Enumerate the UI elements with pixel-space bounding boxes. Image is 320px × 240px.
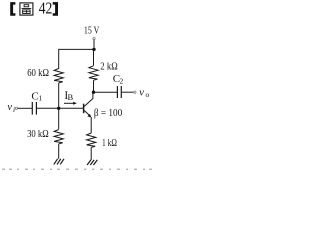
CJK glyph 圖 drawn as shapes xyxy=(20,3,33,15)
wire C2 to vo xyxy=(122,91,134,93)
wire vi to C1 xyxy=(18,107,32,109)
svg-text:60 kΩ: 60 kΩ xyxy=(27,68,49,79)
wire top rail xyxy=(59,48,94,50)
supply terminal circle xyxy=(93,37,95,39)
base bar xyxy=(83,104,85,114)
svg-text:42: 42 xyxy=(39,0,53,18)
ground right xyxy=(87,160,97,165)
svg-text:15 V: 15 V xyxy=(84,25,100,36)
wire 60k to base node xyxy=(58,83,60,108)
svg-text:B: B xyxy=(68,92,74,102)
resistor 1 kΩ xyxy=(87,133,96,147)
ground left xyxy=(54,159,64,165)
wire collector to C2 xyxy=(94,91,118,93)
svg-text:v: v xyxy=(7,102,12,113)
wire left branch upper xyxy=(58,49,60,69)
wire 30k branch upper xyxy=(58,108,60,129)
collector lead xyxy=(84,99,93,107)
output terminal circle xyxy=(134,91,136,93)
svg-text:β = 100: β = 100 xyxy=(94,108,122,119)
resistor 2 kΩ xyxy=(89,66,98,80)
svg-text:o: o xyxy=(146,90,150,99)
svg-text:1: 1 xyxy=(39,94,43,103)
wire C1 to base xyxy=(37,107,84,109)
resistor 60 kΩ xyxy=(54,69,63,83)
svg-text:2: 2 xyxy=(120,77,124,86)
svg-text:1 kΩ: 1 kΩ xyxy=(102,138,117,149)
right lenticular bracket xyxy=(53,2,58,16)
wire supply stub xyxy=(93,40,95,50)
wire right branch upper xyxy=(93,49,95,65)
capacitor C1 xyxy=(31,102,33,115)
left lenticular bracket xyxy=(10,2,15,16)
title figure label 【圖 42】 xyxy=(10,0,58,18)
wire 30k to ground xyxy=(58,144,60,159)
current arrow IB xyxy=(64,102,74,104)
svg-text:v: v xyxy=(139,87,144,98)
faint cropped text row at bottom xyxy=(2,168,152,170)
resistor 30 kΩ xyxy=(54,130,63,144)
svg-text:i: i xyxy=(13,105,15,114)
junction dot supply node xyxy=(92,48,95,51)
wire 2k to collector node xyxy=(93,80,95,92)
svg-text:30 kΩ: 30 kΩ xyxy=(27,129,49,140)
junction dot base node xyxy=(57,107,60,110)
wire 1k to ground xyxy=(90,147,92,160)
junction dot collector node xyxy=(92,91,95,94)
emitter lead with arrow xyxy=(84,110,90,116)
input terminal circle xyxy=(15,107,17,109)
capacitor C2 xyxy=(116,86,118,98)
svg-text:2 kΩ: 2 kΩ xyxy=(100,62,118,73)
transistor Q1 xyxy=(84,92,93,133)
